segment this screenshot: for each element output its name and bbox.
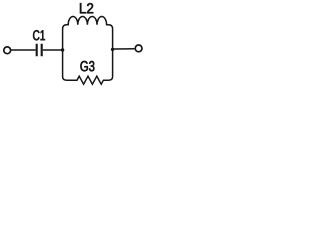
wire terminal-to-C1 [11,49,36,51]
terminal right [135,45,142,52]
node A [61,48,64,51]
label G3 [80,61,94,71]
label L2 [80,3,93,13]
wire right-vertical [112,29,114,77]
wire nodeB-to-terminal [113,48,135,50]
resistor G3 [63,76,113,84]
node B [111,48,114,51]
wire C1-to-nodeA [43,49,63,51]
inductor L2 [63,16,113,29]
terminal left [4,47,11,54]
wire nodeA-down [62,50,64,77]
wire nodeA-up [62,29,64,50]
label C1 [33,30,45,40]
capacitor C1 [37,44,42,56]
